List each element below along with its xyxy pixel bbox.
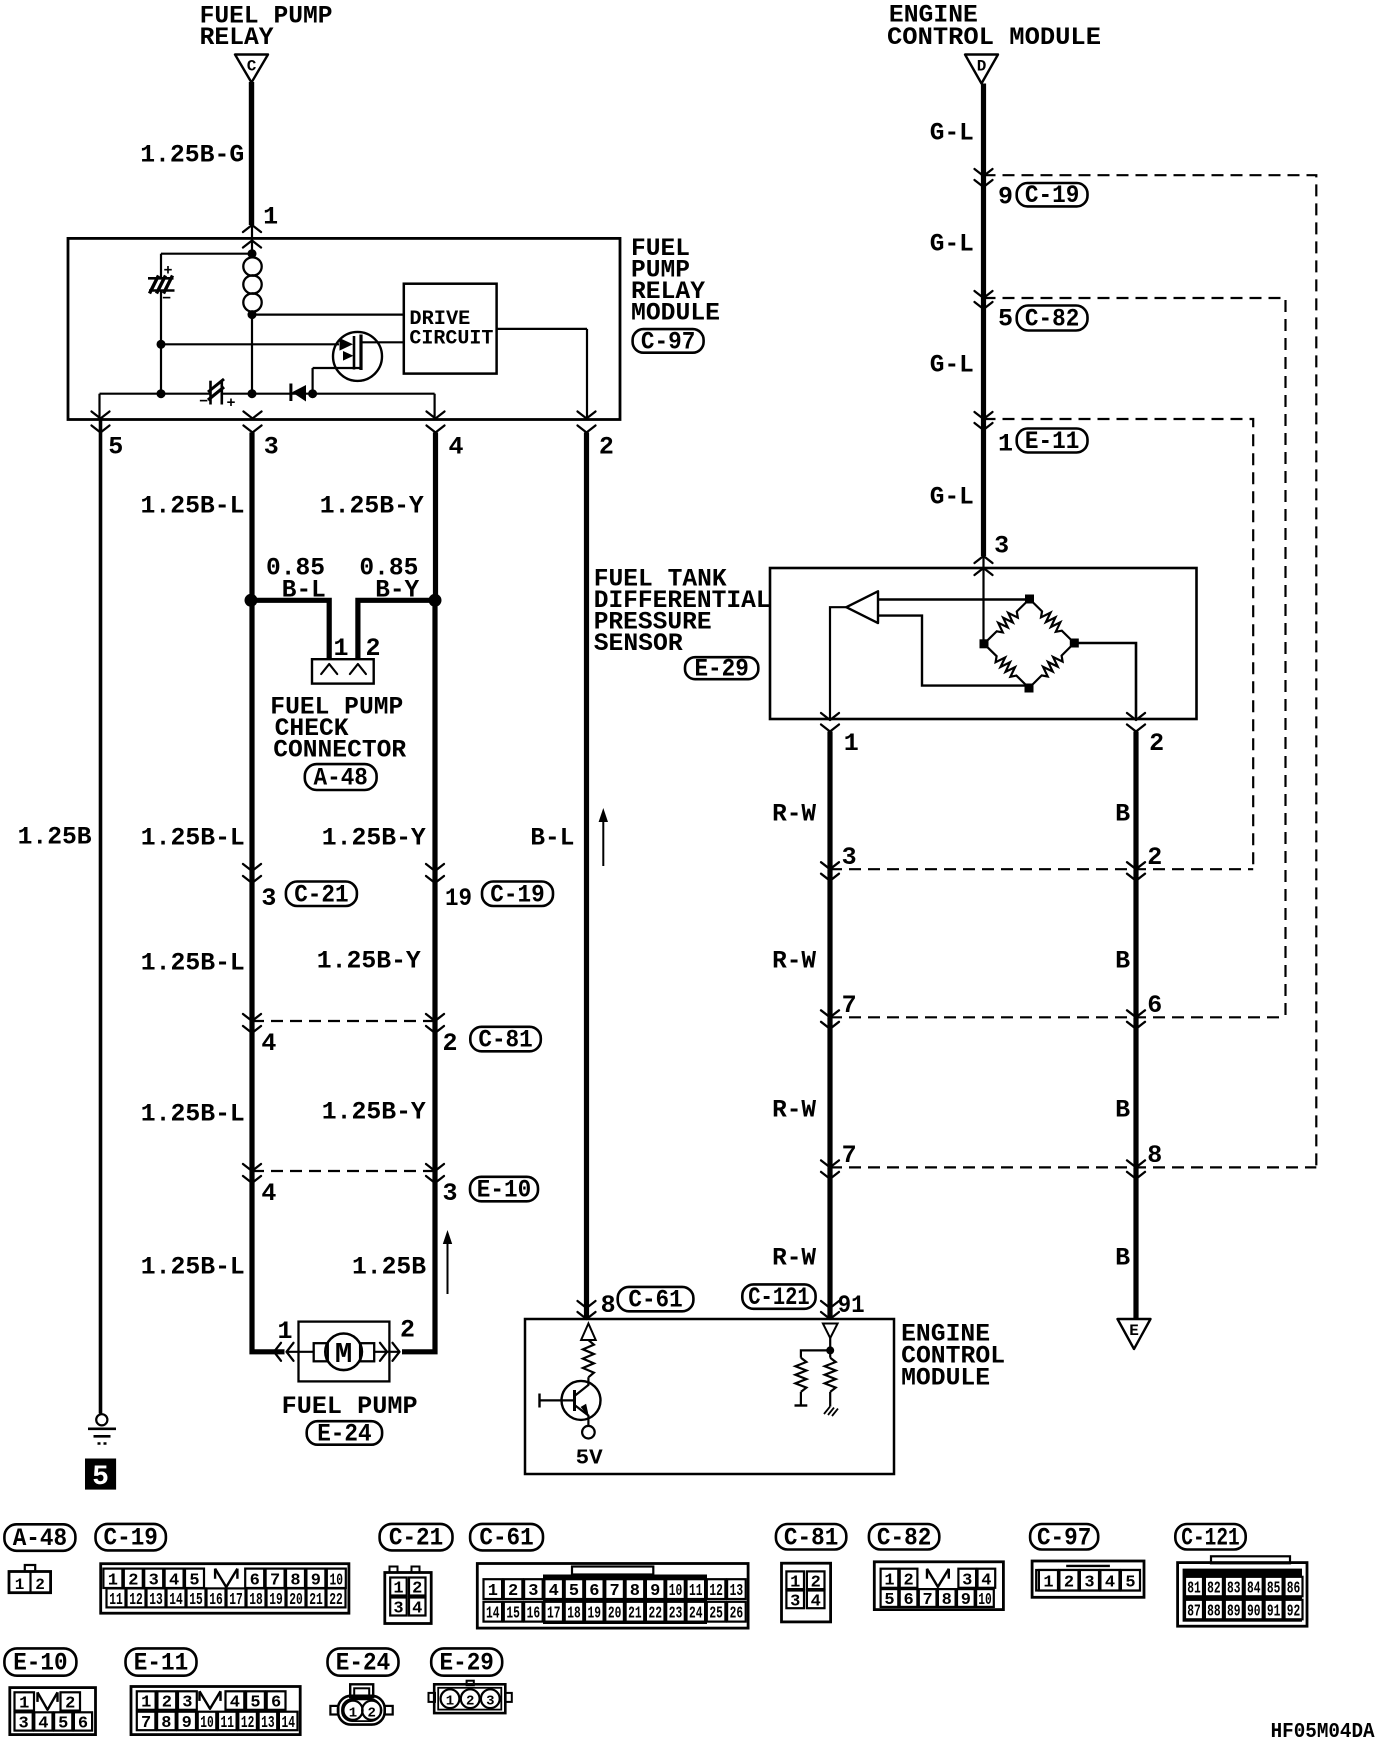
svg-text:4: 4 [811, 1592, 821, 1611]
svg-text:C-121: C-121 [748, 1283, 809, 1312]
svg-text:HF05M04DA: HF05M04DA [1271, 1721, 1375, 1742]
node: diode to source junction [308, 389, 317, 398]
svg-text:13: 13 [149, 1591, 163, 1610]
inline row pin 2 on B [1127, 862, 1145, 869]
svg-text:1: 1 [278, 1317, 293, 1346]
ECM transistor Q2 circle [562, 1381, 601, 1420]
wire B segment 2 [1133, 869, 1138, 1017]
svg-text:9: 9 [650, 1582, 660, 1601]
inline connector E-11 pin 1 on G-L [975, 412, 993, 419]
svg-text:G-L: G-L [930, 119, 974, 148]
svg-text:2: 2 [65, 1694, 75, 1713]
svg-text:19: 19 [269, 1591, 283, 1610]
svg-text:E-24: E-24 [336, 1649, 390, 1678]
svg-text:8: 8 [601, 1291, 616, 1320]
svg-text:2: 2 [1147, 843, 1162, 872]
ECM transistor Q2 base line [540, 1399, 575, 1401]
svg-text:2: 2 [508, 1582, 518, 1601]
svg-text:CONNECTOR: CONNECTOR [273, 736, 406, 765]
svg-text:E-11: E-11 [1025, 427, 1079, 456]
wire R-W segment 3 [827, 1017, 832, 1167]
svg-text:19: 19 [588, 1605, 602, 1624]
wire B-L (pin 2 down to ECM) [584, 433, 589, 1320]
capsule C-97 (pinout) [1030, 1524, 1098, 1550]
svg-text:E-11: E-11 [134, 1649, 188, 1678]
inline connector C-19 pin 9 on G-L [975, 169, 993, 176]
svg-text:5: 5 [884, 1591, 894, 1610]
capsule A-48 (pinout) [4, 1524, 75, 1551]
capsule C-19 (pinout) [96, 1524, 166, 1551]
capsule A-48 [305, 764, 377, 790]
svg-text:C-81: C-81 [478, 1026, 532, 1055]
wire MOSFET source to diode node [313, 367, 361, 369]
wire B segment 1 [1133, 732, 1138, 870]
svg-text:3: 3 [994, 532, 1009, 561]
ECM transistor Q2 emitter with arrow [575, 1405, 589, 1426]
svg-text:1.25B-G: 1.25B-G [140, 141, 244, 170]
svg-text:CONTROL MODULE: CONTROL MODULE [887, 23, 1101, 52]
svg-text:1.25B-L: 1.25B-L [141, 949, 245, 978]
inline connector C-81 pin 4 on 1.25B-L [243, 1014, 261, 1021]
connector pin 2 of relay module [578, 412, 596, 419]
svg-text:C-61: C-61 [628, 1286, 682, 1315]
svg-text:E-29: E-29 [440, 1649, 494, 1678]
ECM resistor R6 [795, 1358, 806, 1392]
connector C-61 pinout drawing [477, 1564, 748, 1629]
svg-text:22: 22 [329, 1591, 343, 1610]
svg-text:5: 5 [58, 1714, 68, 1733]
svg-text:3: 3 [443, 1179, 458, 1208]
svg-text:C-61: C-61 [479, 1524, 533, 1553]
wire gate node down to bottom rail [160, 344, 162, 393]
bottom rail of relay module [100, 393, 211, 395]
engine control module box (bottom) [525, 1319, 894, 1474]
svg-text:18: 18 [249, 1591, 263, 1610]
wire R-W segment 1 [827, 732, 832, 870]
svg-text:6: 6 [271, 1694, 281, 1713]
svg-text:B-L: B-L [530, 824, 574, 853]
wire gate line from gate node to MOSFET [161, 343, 339, 345]
svg-text:19: 19 [445, 884, 472, 913]
connector pin 3 of relay module [244, 412, 262, 419]
ECM 5V supply circle [582, 1426, 595, 1439]
svg-text:−: − [199, 394, 208, 411]
ECM input marker (open triangle) on pin 91 line [823, 1324, 838, 1339]
bridge node bottom [1025, 684, 1034, 693]
svg-text:7: 7 [609, 1582, 619, 1601]
svg-text:2: 2 [599, 433, 614, 462]
svg-text:+: + [164, 263, 173, 280]
wire bridge bottom node to op-amp input [878, 616, 1029, 686]
bridge resistor R2 (top-right) [1030, 599, 1075, 643]
svg-text:B: B [1115, 800, 1130, 829]
svg-text:FUEL PUMP: FUEL PUMP [282, 1392, 418, 1421]
inline row pin 3 on R-W [821, 862, 839, 869]
svg-text:3: 3 [842, 843, 857, 872]
svg-text:3: 3 [486, 1694, 494, 1710]
svg-text:1: 1 [446, 1694, 454, 1710]
svg-text:CIRCUIT: CIRCUIT [409, 328, 493, 351]
svg-text:1: 1 [844, 729, 859, 758]
ECM pin 8 label and capsule C-61 [578, 1301, 596, 1308]
svg-text:10: 10 [669, 1582, 683, 1601]
wire drive circuit output to pin 2 [497, 328, 587, 330]
node: gate branch junction [157, 340, 166, 349]
node: bottom rail left junction [157, 389, 166, 398]
wire rail left drop to pin 5 [98, 394, 100, 420]
svg-text:1.25B: 1.25B [18, 823, 92, 852]
svg-text:B: B [1115, 947, 1130, 976]
current direction arrow (B-L up) [602, 818, 604, 866]
bridge node right [1070, 639, 1079, 648]
svg-text:8: 8 [161, 1714, 171, 1733]
connector C-121 pinout drawing [1211, 1556, 1290, 1563]
svg-text:1: 1 [488, 1582, 498, 1601]
inline connector C-82 pin 5 on G-L [975, 291, 993, 298]
connector C-82 pinout drawing [874, 1562, 1003, 1610]
connector E-24 pinout drawing [350, 1684, 373, 1697]
svg-text:17: 17 [547, 1605, 561, 1624]
svg-text:B: B [1115, 1244, 1130, 1273]
svg-text:MODULE: MODULE [901, 1364, 990, 1393]
svg-text:14: 14 [281, 1714, 295, 1733]
svg-text:12: 12 [129, 1591, 143, 1610]
check connector terminal forks [321, 664, 337, 674]
svg-text:6: 6 [1147, 991, 1162, 1020]
wire 1.25B-Y segment 4 [432, 1021, 437, 1171]
svg-text:1.25B-L: 1.25B-L [141, 1253, 245, 1282]
svg-text:C-19: C-19 [104, 1524, 158, 1553]
wire G-L segment 2 [981, 175, 986, 298]
svg-text:2: 2 [412, 1580, 422, 1599]
svg-text:G-L: G-L [930, 230, 974, 259]
svg-text:2: 2 [466, 1694, 474, 1710]
svg-text:1.25B-Y: 1.25B-Y [317, 947, 421, 976]
svg-text:C-97: C-97 [641, 327, 695, 356]
connector A-48 pinout drawing [25, 1565, 35, 1572]
sensor pin 2 connector forks [1127, 713, 1145, 720]
MOSFET Q1 body circle [333, 332, 382, 381]
svg-text:1: 1 [141, 1694, 151, 1713]
connector triangle E (ground to ECM) [1118, 1319, 1151, 1349]
svg-text:C-19: C-19 [490, 880, 544, 909]
svg-text:8: 8 [630, 1582, 640, 1601]
MOSFET Q1 gate arrow [340, 338, 354, 351]
capsule C-61 (pinout) [470, 1524, 543, 1551]
svg-text:90: 90 [1247, 1603, 1261, 1622]
connector E-11 pinout drawing [131, 1687, 300, 1735]
ECM pin 91 label and capsule C-121 [742, 1284, 815, 1308]
svg-text:4: 4 [412, 1600, 422, 1619]
wire capacitor to gate node [160, 291, 162, 345]
wire to ECM resistor R6 [801, 1350, 830, 1357]
ECM internal ground (hatched) [824, 1407, 830, 1414]
svg-text:16: 16 [527, 1605, 541, 1624]
connector E-29 pinout drawing [467, 1681, 474, 1686]
svg-text:M: M [335, 1338, 352, 1371]
current direction arrow (1.25B up) [447, 1240, 449, 1294]
bridge resistor R1 (top-left) [984, 599, 1030, 644]
svg-text:E-29: E-29 [694, 655, 748, 684]
svg-text:3: 3 [261, 884, 276, 913]
node: coil bottom junction [248, 310, 257, 319]
svg-text:9: 9 [998, 183, 1013, 212]
wire B segment 4 to ground connector E [1133, 1167, 1138, 1320]
svg-text:8: 8 [1147, 1141, 1162, 1170]
inline row pin 8 on B [1127, 1160, 1145, 1167]
inline connector C-19 pin 19 on 1.25B-Y [426, 864, 444, 871]
MOSFET Q1 channel bar [359, 335, 362, 371]
svg-text:13: 13 [730, 1582, 744, 1601]
wire branch to check connector pin 2 [358, 600, 435, 659]
svg-text:88: 88 [1207, 1603, 1221, 1622]
svg-text:2: 2 [162, 1694, 172, 1713]
dashed link E-11 to pairing [984, 419, 1254, 869]
fuel pump relay module box C-97 [68, 238, 620, 419]
svg-text:83: 83 [1227, 1580, 1241, 1599]
wire B segment 3 [1133, 1017, 1138, 1167]
ECM pull-up resistor R5 [583, 1340, 594, 1377]
inline row pins 7/6 dashed pairing line [830, 1016, 1286, 1018]
svg-text:5: 5 [998, 305, 1013, 334]
capsule C-21 (pinout) [380, 1524, 453, 1551]
svg-text:R-W: R-W [772, 800, 816, 829]
ECM transistor Q2 collector [575, 1377, 589, 1396]
svg-text:15: 15 [189, 1591, 203, 1610]
capsule C-97 (relay module connector id) [633, 329, 704, 353]
svg-text:7: 7 [141, 1714, 151, 1733]
svg-text:C: C [247, 58, 257, 76]
svg-text:E-10: E-10 [13, 1649, 67, 1678]
fuel tank differential pressure sensor box E-29 [770, 568, 1197, 719]
svg-text:22: 22 [648, 1605, 662, 1624]
relay coil L1 [251, 254, 253, 259]
svg-text:2: 2 [903, 1571, 913, 1590]
wire G-L segment 3 [981, 298, 986, 419]
svg-text:89: 89 [1227, 1603, 1241, 1622]
wire coil bottom down to bottom rail [251, 315, 253, 394]
svg-text:3: 3 [962, 1571, 972, 1590]
bridge node top [1025, 595, 1034, 604]
svg-text:C-21: C-21 [294, 880, 348, 909]
connector E-10 pinout drawing [10, 1688, 96, 1735]
svg-text:82: 82 [1207, 1580, 1221, 1599]
bridge resistor R3 (bottom-left) [984, 644, 1029, 688]
wire G-L from ECM (segment 1) [981, 84, 986, 177]
wire R-W segment 2 [827, 869, 832, 1017]
node: check connector right junction [429, 594, 442, 607]
svg-text:C-21: C-21 [389, 1524, 443, 1553]
capsule E-24 (pinout) [328, 1648, 399, 1675]
svg-text:SENSOR: SENSOR [594, 629, 683, 658]
fuel pump motor M1 [325, 1334, 362, 1371]
svg-text:4: 4 [230, 1694, 240, 1713]
svg-text:11: 11 [221, 1714, 235, 1733]
svg-text:18: 18 [567, 1605, 581, 1624]
wire MOSFET drain to drive circuit [361, 341, 404, 343]
capsule C-121 (pinout) [1175, 1524, 1245, 1550]
connector pin 4 of relay module [427, 412, 445, 419]
svg-text:84: 84 [1247, 1580, 1261, 1599]
svg-text:−: − [162, 291, 171, 308]
capsule E-24 [307, 1421, 382, 1445]
wire 1.25B-L segment 5 to fuel pump [252, 1171, 285, 1352]
svg-text:1.25B-L: 1.25B-L [141, 492, 245, 521]
svg-text:3: 3 [182, 1694, 192, 1713]
svg-text:3: 3 [393, 1600, 403, 1619]
wire coil bottom to drive circuit [252, 314, 404, 316]
wire 1.25B-L segment 2 [249, 600, 254, 871]
svg-text:1: 1 [1043, 1573, 1053, 1592]
dashed link C-82 to pairing [984, 298, 1286, 1017]
connector triangle D (engine control module) [965, 55, 998, 84]
wire 1.25B-Y (pin 4 down) [433, 433, 438, 601]
wire branch to check connector pin 1 [251, 600, 329, 659]
svg-text:2: 2 [1064, 1573, 1074, 1592]
svg-text:4: 4 [449, 433, 464, 462]
svg-text:1.25B-Y: 1.25B-Y [322, 824, 426, 853]
svg-text:86: 86 [1287, 1580, 1301, 1599]
svg-text:A-48: A-48 [13, 1524, 67, 1553]
svg-text:13: 13 [261, 1714, 275, 1733]
svg-text:24: 24 [689, 1605, 703, 1624]
sensor pin 1 connector forks [821, 713, 839, 720]
svg-text:6: 6 [78, 1714, 88, 1733]
ECM input marker (open triangle) on pin 8 line [581, 1324, 596, 1341]
svg-text:1.25B-Y: 1.25B-Y [322, 1098, 426, 1127]
svg-text:11: 11 [689, 1582, 703, 1601]
svg-text:G-L: G-L [930, 351, 974, 380]
svg-text:17: 17 [229, 1591, 243, 1610]
inline connector E-10 pin 4 on 1.25B-L [243, 1164, 261, 1171]
svg-text:1: 1 [393, 1580, 403, 1599]
svg-text:2: 2 [367, 1705, 375, 1721]
connector C-21 pinout drawing [390, 1567, 398, 1573]
connector pin 5 of relay module [92, 412, 110, 419]
wire bridge top node to op-amp input [878, 598, 1030, 600]
fuel pump check connector A-48 box [312, 659, 374, 683]
wire 1.25B-L segment 4 [249, 1021, 254, 1171]
wire op-amp output to sensor pin 1 [830, 607, 846, 719]
svg-text:3: 3 [790, 1592, 800, 1611]
svg-text:10: 10 [200, 1714, 214, 1733]
inline row pin 7 on R-W [821, 1010, 839, 1017]
svg-text:D: D [977, 58, 987, 76]
svg-text:1: 1 [19, 1694, 29, 1713]
svg-text:91: 91 [838, 1291, 865, 1320]
svg-text:R-W: R-W [772, 947, 816, 976]
svg-text:4: 4 [1105, 1573, 1115, 1592]
svg-text:6: 6 [903, 1591, 913, 1610]
wire ECM pin 91 internal node [829, 1338, 831, 1350]
svg-text:6: 6 [589, 1582, 599, 1601]
svg-text:85: 85 [1267, 1580, 1281, 1599]
svg-text:B: B [1115, 1096, 1130, 1125]
diode D1 on bottom rail [289, 384, 292, 402]
svg-text:15: 15 [506, 1605, 520, 1624]
svg-text:91: 91 [1267, 1603, 1281, 1622]
svg-text:1: 1 [15, 1576, 25, 1594]
svg-text:10: 10 [978, 1591, 992, 1610]
wire G-L segment 4 [981, 419, 986, 556]
svg-text:4: 4 [261, 1179, 276, 1208]
node: bottom rail center junction [248, 389, 257, 398]
ECM transistor Q2 base bar [573, 1390, 576, 1411]
svg-text:1: 1 [998, 430, 1013, 459]
connector triangle C (fuel pump relay) [235, 55, 268, 83]
svg-text:C-97: C-97 [1037, 1523, 1091, 1552]
svg-text:5V: 5V [576, 1448, 603, 1471]
capsule E-11 (pinout) [126, 1648, 197, 1675]
capsule E-29 [685, 657, 758, 679]
fuel pump motor box [299, 1322, 390, 1382]
svg-text:4: 4 [38, 1714, 48, 1733]
wire 1.25B-G from fuel pump relay [249, 82, 254, 225]
svg-text:1.25B: 1.25B [352, 1253, 426, 1282]
svg-text:1.25B-L: 1.25B-L [141, 824, 245, 853]
ECM resistor R7 [829, 1350, 831, 1357]
svg-text:23: 23 [669, 1605, 683, 1624]
svg-text:3: 3 [18, 1714, 28, 1733]
wire 1.25B-Y segment 3 [432, 871, 437, 1021]
capsule C-82 (pinout) [869, 1524, 939, 1550]
capacitor C2 (polarized, hatched) on bottom rail [209, 381, 212, 405]
ground symbol G1 [96, 1414, 107, 1425]
sensor pin 3 connector forks [975, 556, 993, 563]
svg-text:3: 3 [1084, 1573, 1094, 1592]
svg-text:5: 5 [569, 1582, 579, 1601]
connector C-19 pinout drawing [101, 1564, 349, 1614]
svg-text:12: 12 [709, 1582, 723, 1601]
svg-text:1.25B-Y: 1.25B-Y [320, 492, 424, 521]
svg-text:14: 14 [486, 1605, 500, 1624]
svg-text:87: 87 [1187, 1603, 1201, 1622]
connector C-81 pinout drawing [782, 1563, 831, 1622]
wire 1.25B ground wire (pin 5 down to ground) [99, 419, 103, 1414]
svg-text:81: 81 [1187, 1580, 1201, 1599]
wire from coil top to capacitor branch [161, 253, 252, 255]
svg-text:1.25B-L: 1.25B-L [141, 1100, 245, 1129]
svg-text:R-W: R-W [772, 1244, 816, 1273]
inline connector E-10 dashed pairing line [252, 1170, 435, 1172]
connector pin 1 into relay module [243, 225, 261, 232]
svg-text:5: 5 [92, 1462, 109, 1493]
svg-text:9: 9 [961, 1591, 971, 1610]
capsule C-81 (pinout) [776, 1524, 846, 1550]
svg-text:+: + [227, 395, 236, 412]
wire bridge right node to sensor pin 2 [1074, 643, 1136, 719]
drive circuit box U1 [404, 284, 497, 374]
MOSFET Q1 gate bar [353, 336, 356, 370]
fuel pump motor brushes [314, 1343, 328, 1361]
svg-text:E: E [1129, 1322, 1139, 1340]
svg-text:92: 92 [1287, 1603, 1301, 1622]
svg-text:4: 4 [261, 1029, 276, 1058]
fuel pump motor connector forks [287, 1343, 294, 1361]
svg-text:R-W: R-W [772, 1096, 816, 1125]
svg-text:5: 5 [108, 433, 123, 462]
node: wire junction top of relay coil [248, 249, 257, 258]
svg-text:3: 3 [528, 1582, 538, 1601]
op-amp U2 (sensor amplifier) [846, 591, 878, 623]
bridge resistor R4 (bottom-right) [1029, 643, 1074, 688]
svg-text:E-24: E-24 [317, 1419, 371, 1448]
page reference black square 5 [86, 1459, 116, 1489]
inline row pins 3/2 dashed pairing line [830, 868, 1253, 870]
svg-text:20: 20 [608, 1605, 622, 1624]
inline connector C-81 dashed pairing line [252, 1020, 435, 1022]
svg-text:2: 2 [1149, 729, 1164, 758]
